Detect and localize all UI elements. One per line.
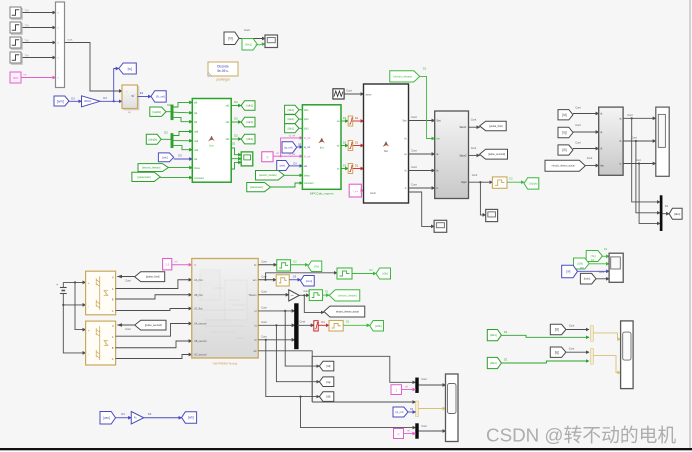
svg-text:D3: D3 <box>121 412 125 416</box>
svg-text:wave: wave <box>366 94 372 97</box>
svg-text:Cont: Cont <box>421 424 427 428</box>
svg-text:[wb]: [wb] <box>188 416 194 420</box>
svg-text:UB_second: UB_second <box>194 340 207 343</box>
svg-text:[iq]: [iq] <box>326 380 330 384</box>
svg-text:D2: D2 <box>504 358 508 362</box>
svg-text:Cont: Cont <box>261 259 267 263</box>
svg-text:[Te]: [Te] <box>314 264 319 268</box>
svg-text:CSDN @转不动的电机: CSDN @转不动的电机 <box>486 425 676 446</box>
svg-text:[Te]: [Te] <box>591 254 596 258</box>
svg-text:[Uq/pk]: [Uq/pk] <box>529 181 537 185</box>
svg-text:Cont: Cont <box>569 324 575 328</box>
svg-text:wm: wm <box>253 279 257 282</box>
svg-text:D2: D2 <box>509 177 513 181</box>
svg-text:C: C <box>112 310 114 313</box>
svg-text:[iqk1]: [iqk1] <box>288 117 295 121</box>
svg-text:7M: 7M <box>25 54 30 58</box>
svg-text:[abc]: [abc] <box>674 212 680 216</box>
svg-text:Cont: Cont <box>599 271 605 274</box>
svg-text:constant: constant <box>194 176 204 180</box>
svg-text:0: 0 <box>398 432 400 436</box>
svg-text:D2: D2 <box>423 67 427 71</box>
svg-text:[pulse_second]: [pulse_second] <box>145 324 162 327</box>
svg-text:[wm]: [wm] <box>306 279 312 283</box>
svg-text:[pulse_first]: [pulse_first] <box>146 275 160 279</box>
svg-text:[i0k1]: [i0k1] <box>246 137 253 141</box>
svg-text:D2: D2 <box>234 134 238 138</box>
svg-text:Cont: Cont <box>244 28 250 32</box>
svg-text:i0_ref: i0_ref <box>304 155 311 158</box>
svg-text:D3: D3 <box>293 162 297 166</box>
svg-text:[w]: [w] <box>128 67 132 71</box>
svg-text:[N]: [N] <box>228 37 232 41</box>
svg-text:[pulse_second]: [pulse_second] <box>488 153 505 156</box>
svg-text:[id0k]: [id0k] <box>375 324 382 328</box>
svg-text:T_per: T_per <box>352 190 358 193</box>
svg-text:powergui: powergui <box>217 78 230 82</box>
svg-text:[idk1]: [idk1] <box>246 104 253 108</box>
svg-text:D2: D2 <box>346 320 350 324</box>
svg-text:Thetam: Thetam <box>248 294 256 297</box>
svg-text:[iq_ref]: [iq_ref] <box>395 410 403 414</box>
svg-text:[iDk]: [iDk] <box>577 262 583 266</box>
svg-text:Cont: Cont <box>125 279 131 283</box>
svg-text:OW-PMSM Te-dq1: OW-PMSM Te-dq1 <box>212 362 237 366</box>
svg-text:D3: D3 <box>71 97 75 101</box>
svg-text:[w]: [w] <box>566 270 570 274</box>
svg-text:wsrm: wsrm <box>370 192 376 195</box>
svg-text:D3: D3 <box>178 154 182 158</box>
svg-text:[electric_thetam]: [electric_thetam] <box>142 167 161 170</box>
svg-text:Cont: Cont <box>261 275 267 279</box>
svg-text:7M: 7M <box>25 24 30 28</box>
svg-text:Cont: Cont <box>472 173 478 177</box>
svg-text:xk1: xk1 <box>225 120 230 124</box>
svg-text:UA_second: UA_second <box>194 323 207 326</box>
svg-text:[idk1]: [idk1] <box>288 108 295 112</box>
svg-text:electric_thetam_actual: electric_thetam_actual <box>336 310 359 313</box>
svg-text:[i0]: [i0] <box>562 148 566 152</box>
svg-text:Swt: Swt <box>437 120 441 123</box>
svg-text:[i0k]: [i0k] <box>382 272 388 276</box>
svg-text:1: 1 <box>395 388 397 392</box>
svg-text:xk1: xk1 <box>225 104 230 108</box>
svg-text:7M: 7M <box>25 39 30 43</box>
svg-text:fcn: fcn <box>320 146 324 150</box>
svg-text:[wm]: [wm] <box>103 416 110 420</box>
svg-text:Satur2: Satur2 <box>459 154 467 157</box>
svg-text:iqk1: iqk1 <box>304 118 309 121</box>
svg-text:uqk: uqk <box>194 139 199 143</box>
svg-text:✓: ✓ <box>126 91 128 94</box>
svg-text:[N_ref]: [N_ref] <box>156 95 165 99</box>
svg-text:UC_flux: UC_flux <box>194 308 203 311</box>
svg-text:[electric_thetam]: [electric_thetam] <box>394 75 413 78</box>
svg-text:380/pi: 380/pi <box>84 99 92 103</box>
svg-text:[electric_thetam]: [electric_thetam] <box>259 174 277 177</box>
svg-text:[wk]: [wk] <box>162 155 168 159</box>
svg-text:Cont: Cont <box>627 113 633 117</box>
svg-text:[parameter]: [parameter] <box>250 186 263 189</box>
svg-text:Cont: Cont <box>587 156 593 160</box>
svg-text:E3: E3 <box>140 91 144 95</box>
svg-text:Cont: Cont <box>421 377 427 381</box>
svg-text:1.5: 1.5 <box>165 263 169 267</box>
svg-text:D2: D2 <box>234 100 238 104</box>
svg-text:[id]: [id] <box>562 113 566 117</box>
svg-text:[id]: [id] <box>555 328 559 332</box>
svg-text:theta: theta <box>194 166 200 170</box>
svg-text:Cont: Cont <box>411 115 417 119</box>
svg-text:id_ref: id_ref <box>304 137 311 140</box>
svg-text:[wk]: [wk] <box>280 164 286 168</box>
svg-text:Swt: Swt <box>402 120 406 123</box>
svg-text:fcn: fcn <box>209 144 213 148</box>
svg-text:Uq/pi: Uq/pi <box>461 181 467 184</box>
svg-text:Cont: Cont <box>575 141 581 145</box>
svg-text:Cont: Cont <box>411 165 417 169</box>
svg-text:constant: constant <box>304 182 314 185</box>
svg-text:ref: ref <box>175 261 178 264</box>
svg-text:D2: D2 <box>232 142 236 146</box>
svg-text:Cont: Cont <box>300 320 306 324</box>
svg-text:ref: ref <box>405 386 408 389</box>
svg-text:Cont: Cont <box>471 146 477 150</box>
svg-text:[tabc]: [tabc] <box>584 277 591 281</box>
svg-text:500: 500 <box>13 76 18 80</box>
svg-text:Cont: Cont <box>635 158 641 162</box>
svg-text:Cont: Cont <box>471 118 477 122</box>
svg-text:UB_first: UB_first <box>194 294 203 297</box>
svg-text:w': w' <box>132 94 135 98</box>
svg-text:[Udq0k]: [Udq0k] <box>148 137 157 141</box>
svg-text:[idk1]: [idk1] <box>490 333 497 337</box>
svg-text:[i0]: [i0] <box>326 395 330 399</box>
svg-text:D2: D2 <box>164 131 168 135</box>
svg-text:[idq0k]: [idq0k] <box>153 110 161 114</box>
svg-text:D2: D2 <box>504 330 508 334</box>
svg-text:MPCCalc_expem: MPCCalc_expem <box>310 192 334 196</box>
svg-text:fcn: fcn <box>384 149 388 153</box>
svg-text:UC_second: UC_second <box>194 354 207 357</box>
svg-text:D2: D2 <box>293 259 297 263</box>
svg-text:D3: D3 <box>293 275 297 279</box>
svg-text:iq_ref: iq_ref <box>304 146 311 149</box>
svg-text:Cont: Cont <box>631 136 637 140</box>
svg-text:D2: D2 <box>325 290 329 294</box>
svg-text:u0k: u0k <box>194 148 199 152</box>
svg-text:Cont: Cont <box>261 306 267 310</box>
svg-text:ref: ref <box>276 152 279 155</box>
svg-text:C: C <box>112 358 114 361</box>
svg-text:Discrete: Discrete <box>217 65 229 69</box>
svg-text:Cont: Cont <box>411 183 417 187</box>
svg-text:[wm]: [wm] <box>57 99 64 103</box>
svg-text:D3: D3 <box>298 142 302 146</box>
svg-text:D2: D2 <box>369 268 373 272</box>
svg-text:Satur1: Satur1 <box>459 126 467 129</box>
svg-text:7M5: 7M5 <box>67 38 73 42</box>
svg-text:Cont: Cont <box>303 290 308 293</box>
svg-text:[iqk1]: [iqk1] <box>246 120 253 124</box>
svg-text:-: - <box>88 353 89 356</box>
svg-text:Cont: Cont <box>411 149 417 153</box>
svg-text:idk1: idk1 <box>304 109 309 112</box>
svg-text:Cont: Cont <box>261 335 267 339</box>
svg-text:int: int <box>24 73 27 77</box>
svg-text:Cont: Cont <box>261 290 267 294</box>
svg-text:D2: D2 <box>234 117 238 121</box>
svg-text:xk1: xk1 <box>225 137 230 141</box>
svg-text:[parameter]: [parameter] <box>137 175 151 179</box>
svg-text:[electric_thetam]: [electric_thetam] <box>338 294 357 297</box>
svg-text:UA_first: UA_first <box>194 279 203 282</box>
svg-text:[id]: [id] <box>326 364 330 368</box>
svg-text:Cont: Cont <box>569 346 575 350</box>
svg-text:ref: ref <box>407 430 410 433</box>
svg-text:theta: theta <box>304 174 310 177</box>
svg-text:electric_thetam_actual: electric_thetam_actual <box>552 165 575 168</box>
svg-text:[iq]: [iq] <box>555 350 559 354</box>
svg-text:Cont: Cont <box>125 327 131 331</box>
svg-text:D3: D3 <box>103 96 107 100</box>
svg-text:-: - <box>88 305 89 308</box>
svg-text:5e-05 s.: 5e-05 s. <box>217 69 229 73</box>
svg-text:D3: D3 <box>148 412 152 416</box>
svg-text:[iq]: [iq] <box>562 131 566 135</box>
svg-text:7M: 7M <box>25 9 30 13</box>
svg-text:[Nk1]: [Nk1] <box>245 42 252 46</box>
svg-text:[iq_ref]: [iq_ref] <box>284 145 292 149</box>
svg-text:+: + <box>56 283 58 287</box>
svg-text:Cont: Cont <box>575 123 581 127</box>
svg-text:[i0k1]: [i0k1] <box>288 126 295 130</box>
svg-text:Cont: Cont <box>575 106 581 110</box>
svg-text:[pulse_first]: [pulse_first] <box>489 124 503 128</box>
svg-text:[idk1]: [idk1] <box>490 361 497 365</box>
svg-text:udk: udk <box>194 130 199 134</box>
svg-text:Cont: Cont <box>261 320 267 324</box>
svg-text:D4: D4 <box>321 320 325 324</box>
svg-text:i0k1: i0k1 <box>304 127 309 130</box>
svg-text:id_ref: id_ref <box>289 134 296 138</box>
svg-text:0: 0 <box>266 156 268 160</box>
svg-text:Cont: Cont <box>346 89 352 93</box>
